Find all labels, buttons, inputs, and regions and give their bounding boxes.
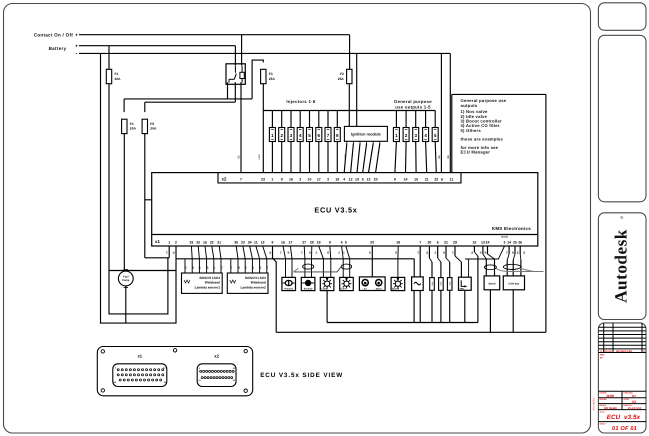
svg-text:5: 5 [345,240,347,244]
svg-text:XX-XX-XXX: XX-XX-XXX [627,407,642,410]
svg-text:wt: wt [301,251,304,254]
svg-text:15: 15 [472,240,476,244]
svg-text:26: 26 [518,240,522,244]
svg-text:ISSUED: ISSUED [600,398,608,401]
svg-text:16: 16 [281,240,285,244]
svg-text:wt: wt [452,251,455,254]
svg-text:ECU v3.5x: ECU v3.5x [607,414,641,421]
svg-text:22: 22 [434,177,438,181]
svg-text:27: 27 [302,240,306,244]
svg-text:11: 11 [449,177,453,181]
svg-text:7: 7 [419,240,421,244]
svg-text:29: 29 [453,240,457,244]
svg-text:Knock1: Knock1 [284,287,293,290]
svg-text:33: 33 [189,240,193,244]
svg-text:wt: wt [184,266,187,269]
svg-text:30: 30 [427,240,431,244]
svg-text:21: 21 [425,177,429,181]
svg-text:BOSCH LSU4: BOSCH LSU4 [245,276,266,280]
svg-text:25: 25 [513,240,517,244]
svg-text:13: 13 [367,177,371,181]
svg-text:F1: F1 [115,72,119,76]
svg-text:32: 32 [196,240,200,244]
svg-text:br: br [338,251,341,253]
svg-text:12: 12 [349,177,353,181]
svg-text:1: 1 [271,177,273,181]
svg-text:Lambda sensor2: Lambda sensor2 [240,285,266,289]
svg-text:17: 17 [288,240,292,244]
svg-text:BY: BY [600,356,604,359]
svg-text:use outputs 1-5: use outputs 1-5 [395,104,431,109]
svg-text:TPS: TPS [460,288,465,291]
svg-text:20: 20 [374,177,378,181]
svg-text:18: 18 [335,177,339,181]
svg-text:APPR: APPR [624,398,630,401]
svg-text:F5: F5 [150,122,154,126]
svg-text:Crank: Crank [321,288,328,291]
svg-text:wt: wt [506,251,509,254]
svg-text:Lambda sensor1: Lambda sensor1 [195,285,221,289]
svg-text:+12v: +12v [258,153,261,159]
svg-text:1: 1 [168,240,170,244]
svg-text:Injectors 1-8: Injectors 1-8 [286,99,316,104]
svg-text:Speed: Speed [392,288,400,291]
svg-text:XX-XX: XX-XX [604,350,612,353]
svg-text:24: 24 [486,240,490,244]
svg-text:wt: wt [280,251,283,254]
svg-text:XX: XX [631,400,637,404]
svg-text:9: 9 [281,177,283,181]
svg-text:Pump: Pump [122,279,130,282]
svg-text:3: 3 [504,240,506,244]
svg-text:35: 35 [234,240,238,244]
svg-text:28: 28 [310,240,314,244]
svg-text:11: 11 [254,240,258,244]
svg-text:Battery: Battery [49,46,67,51]
svg-text:+: + [75,33,78,39]
svg-text:Serial: Serial [488,282,495,285]
svg-text:+12v: +12v [344,153,347,159]
svg-text:5: 5 [362,177,364,181]
svg-text:20A: 20A [130,127,137,131]
svg-text:Air: Air [364,288,367,291]
svg-text:9: 9 [329,240,331,244]
svg-text:7: 7 [240,177,242,181]
svg-text:01 OF 01: 01 OF 01 [612,426,637,432]
svg-text:2: 2 [175,240,177,244]
svg-text:21: 21 [217,240,221,244]
svg-text:x2: x2 [222,177,227,182]
svg-text:10: 10 [308,177,312,181]
svg-text:15: 15 [414,177,418,181]
svg-text:Wideband: Wideband [205,280,220,284]
svg-text:ECU V3.5x SIDE VIEW: ECU V3.5x SIDE VIEW [260,372,343,379]
svg-text:x1: x1 [155,239,160,244]
svg-text:SHEET: SHEET [600,423,607,426]
svg-text:18: 18 [317,240,321,244]
svg-text:Contact On / Off: Contact On / Off [34,32,73,37]
svg-text:14: 14 [404,177,408,181]
svg-text:11/88: 11/88 [606,394,614,398]
svg-text:F3: F3 [269,72,273,76]
svg-text:CAN bus: CAN bus [508,282,520,285]
svg-text:these are examples: these are examples [461,136,504,141]
svg-text:14: 14 [507,240,511,244]
svg-text:Shield: Shield [501,236,508,239]
svg-text:20: 20 [370,240,374,244]
svg-text:2: 2 [299,177,301,181]
svg-text:3: 3 [327,177,329,181]
svg-text:4: 4 [341,240,343,244]
svg-text:31: 31 [444,240,448,244]
svg-text:19: 19 [355,177,359,181]
svg-text:x2: x2 [214,354,219,359]
svg-text:19: 19 [396,240,400,244]
svg-text:22: 22 [210,240,214,244]
svg-text:ECU Manager: ECU Manager [461,150,491,155]
svg-text:23: 23 [241,240,245,244]
svg-text:20A: 20A [115,77,122,81]
svg-text:®: ® [620,215,624,220]
svg-text:F4: F4 [130,122,134,126]
svg-text:17: 17 [317,177,321,181]
svg-text:x1: x1 [137,354,142,359]
svg-text:6: 6 [441,177,443,181]
svg-text:TITLE: TITLE [600,411,606,414]
svg-text:Autodesk: Autodesk [612,229,631,303]
svg-text:outputs: outputs [461,103,478,108]
svg-text:RELEASED: RELEASED [592,397,595,410]
svg-text:4: 4 [343,177,345,181]
svg-text:34: 34 [248,240,252,244]
svg-text:Cam: Cam [341,288,346,291]
svg-text:8: 8 [272,240,274,244]
svg-text:13: 13 [481,240,485,244]
svg-text:25A: 25A [338,77,345,81]
svg-text:Ignition module: Ignition module [351,132,382,137]
svg-text:5) Others: 5) Others [461,128,482,133]
svg-text:+: + [75,44,78,50]
svg-text:Knock2: Knock2 [304,287,313,290]
svg-text:23: 23 [261,177,265,181]
svg-text:6: 6 [437,240,439,244]
svg-text:16: 16 [289,177,293,181]
svg-text:25A: 25A [269,77,276,81]
svg-text:20A: 20A [150,127,157,131]
svg-text:No Scale: No Scale [604,406,617,410]
svg-text:REVISED PER: REVISED PER [616,350,632,353]
svg-text:Water: Water [376,288,382,291]
svg-text:8: 8 [394,177,396,181]
svg-text:Wideband: Wideband [251,280,266,284]
svg-text:REV: REV [600,354,605,357]
svg-text:ECU V3.5x: ECU V3.5x [314,206,357,215]
svg-text:16: 16 [203,240,207,244]
svg-text:-: - [76,51,78,57]
svg-text:BOSCH LSU4: BOSCH LSU4 [199,276,220,280]
svg-text:F2: F2 [340,72,344,76]
svg-text:wt: wt [230,266,233,269]
svg-text:KMS Electronics: KMS Electronics [492,226,531,231]
svg-text:12: 12 [261,240,265,244]
